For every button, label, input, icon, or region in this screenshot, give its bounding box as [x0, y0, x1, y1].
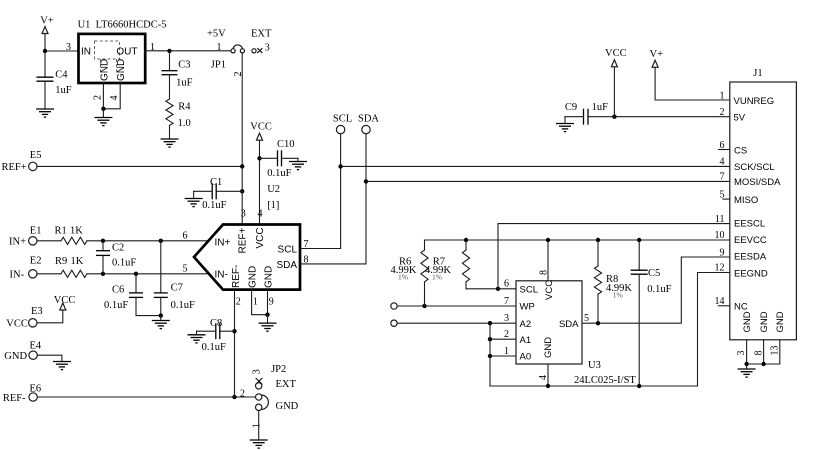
- svg-text:IN+: IN+: [215, 237, 231, 248]
- svg-text:6: 6: [183, 230, 188, 241]
- ground (C1): [185, 199, 203, 207]
- power symbol VCC (E3): [54, 295, 76, 310]
- wire WP net: [397, 305, 516, 307]
- wire U1 pin2: [102, 83, 104, 109]
- junction C5 bottom: [637, 384, 641, 388]
- wire R7 to U3 pin6: [466, 288, 516, 290]
- terminal E2 IN-: [10, 256, 42, 281]
- svg-text:EEGND: EEGND: [734, 268, 768, 279]
- svg-text:1: 1: [504, 346, 509, 357]
- wire U1 OUT to JP1: [145, 50, 231, 52]
- svg-text:1uF: 1uF: [55, 85, 72, 96]
- svg-text:0.1uF: 0.1uF: [202, 200, 226, 211]
- svg-text:2: 2: [240, 388, 245, 399]
- power symbol V+ (left): [40, 16, 54, 34]
- wire EEVCC bus: [425, 239, 730, 241]
- svg-text:J1: J1: [753, 68, 762, 79]
- wire NC stub pin14: [718, 305, 729, 307]
- wire U2 pin1 gnd: [252, 290, 268, 315]
- svg-text:0.1uF: 0.1uF: [112, 258, 136, 269]
- resistor R9 1K: [55, 256, 87, 277]
- capacitor C3: [162, 51, 193, 99]
- wire A0 stub: [490, 355, 516, 357]
- ground (J1 pins 3,8,13): [738, 369, 756, 377]
- svg-text:WP: WP: [520, 302, 535, 313]
- wire EEGND up to J1 pin12: [698, 273, 730, 387]
- power symbol VCC (U2 pin 4): [250, 121, 272, 140]
- wire EESCL to J1 pin11: [498, 224, 730, 289]
- wire EEGND bus: [490, 385, 698, 387]
- svg-text:E3: E3: [31, 306, 43, 317]
- wire SCL bus to J1 pin4: [341, 165, 730, 167]
- svg-text:C8: C8: [210, 318, 222, 329]
- wire 5V line to J1 pin2: [588, 116, 730, 118]
- svg-text:C2: C2: [112, 243, 124, 254]
- svg-text:4: 4: [258, 209, 263, 220]
- svg-text:IN-: IN-: [10, 270, 25, 281]
- svg-text:REF+: REF+: [2, 162, 27, 173]
- svg-text:REF-: REF-: [231, 265, 242, 288]
- svg-text:EEVCC: EEVCC: [734, 235, 767, 246]
- junction IN+/C2: [101, 239, 105, 243]
- resistor R7 4.99K: [425, 240, 470, 289]
- svg-text:SCL: SCL: [520, 285, 538, 296]
- svg-text:VCC: VCC: [544, 280, 555, 300]
- terminal E3 VCC: [6, 306, 42, 329]
- svg-text:VCC: VCC: [250, 121, 272, 132]
- wire REF+ net: [37, 165, 242, 167]
- svg-text:4: 4: [109, 96, 120, 101]
- svg-text:4: 4: [720, 157, 725, 168]
- svg-text:SDA: SDA: [358, 113, 379, 124]
- svg-text:1K: 1K: [71, 256, 84, 267]
- terminal E4 GND: [4, 340, 42, 361]
- svg-text:GND: GND: [247, 266, 258, 288]
- svg-text:GND: GND: [99, 59, 110, 81]
- svg-text:5V: 5V: [734, 113, 746, 124]
- svg-text:JP2: JP2: [271, 364, 286, 375]
- svg-text:C6: C6: [112, 284, 124, 295]
- svg-text:1%: 1%: [613, 290, 623, 299]
- wire REF+ node down to C1: [241, 166, 243, 191]
- junction IN+/C7: [159, 239, 163, 243]
- svg-text:V+: V+: [40, 16, 54, 27]
- svg-text:5: 5: [584, 313, 589, 324]
- junction U3 GND: [546, 384, 550, 388]
- svg-text:GND: GND: [759, 311, 770, 332]
- svg-text:E2: E2: [30, 256, 42, 267]
- terminal test point (A2): [391, 320, 397, 326]
- wire gnd stem: [160, 316, 162, 321]
- svg-text:IN: IN: [81, 47, 91, 58]
- svg-text:7: 7: [504, 296, 509, 307]
- svg-text:3: 3: [241, 209, 246, 220]
- svg-text:IN-: IN-: [215, 269, 228, 280]
- wire SDA bus to J1 pin7: [366, 180, 730, 182]
- wire A2 net: [397, 322, 516, 324]
- svg-text:1uF: 1uF: [176, 78, 193, 89]
- wire U2 pin7 SCL up: [300, 134, 341, 249]
- capacitor C8: [197, 318, 235, 353]
- ground (R4): [161, 139, 179, 147]
- jumper JP2: [240, 364, 299, 428]
- svg-text:C3: C3: [178, 60, 190, 71]
- junction SCL/EESCL: [496, 287, 500, 291]
- capacitor C5: [631, 240, 672, 386]
- svg-text:1uF: 1uF: [592, 102, 609, 113]
- svg-text:GND: GND: [276, 401, 299, 412]
- svg-text:1%: 1%: [398, 272, 408, 281]
- svg-text:REF+: REF+: [238, 227, 249, 253]
- svg-text:MISO: MISO: [734, 195, 758, 206]
- svg-text:9: 9: [720, 247, 725, 258]
- svg-text:VUNREG: VUNREG: [734, 96, 775, 107]
- svg-text:[1]: [1]: [267, 200, 279, 211]
- connector J1: [715, 68, 797, 356]
- svg-text:7: 7: [720, 172, 725, 183]
- svg-text:1K: 1K: [70, 225, 83, 236]
- wire JP1 pin2 down to REF+ node: [241, 53, 243, 166]
- resistor R1 1K: [55, 225, 88, 244]
- junction IN-/C2: [101, 272, 105, 276]
- svg-text:U1 LT6660HCDC-5: U1 LT6660HCDC-5: [78, 20, 167, 31]
- svg-text:0.1uF: 0.1uF: [104, 300, 128, 311]
- capacitor C2: [96, 241, 136, 274]
- svg-text:GND: GND: [543, 337, 554, 358]
- junction U3 VCC: [546, 238, 550, 242]
- svg-text:VCC: VCC: [255, 227, 266, 248]
- svg-text:2: 2: [92, 95, 103, 100]
- svg-text:R1: R1: [55, 225, 67, 236]
- wire V+ to U1 IN: [45, 50, 79, 52]
- svg-text:SDA: SDA: [276, 260, 297, 271]
- svg-text:V+: V+: [650, 49, 664, 60]
- wire gnd stem: [267, 315, 269, 323]
- ground (JP2): [250, 440, 268, 448]
- junction IN-/C6: [134, 272, 138, 276]
- junction OUT/C3: [167, 49, 171, 53]
- wire U3 pin5 SDA to J1 pin9: [582, 257, 730, 323]
- svg-text:0.1uF: 0.1uF: [267, 168, 291, 179]
- svg-text:VCC: VCC: [54, 295, 76, 306]
- junction REF-/U2 pin2: [232, 395, 236, 399]
- svg-text:1%: 1%: [432, 272, 442, 281]
- ground (C4): [36, 109, 54, 117]
- wire U3 pin4 GND: [547, 364, 549, 386]
- svg-text:SCL: SCL: [278, 245, 298, 256]
- jumper JP1: [207, 29, 272, 77]
- svg-text:E1: E1: [30, 226, 42, 237]
- ground (C9): [556, 124, 574, 132]
- junction SDA bus: [364, 179, 368, 183]
- junction J1 gnd pin3: [744, 362, 748, 366]
- svg-text:JP1: JP1: [211, 60, 226, 71]
- svg-text:C4: C4: [55, 70, 68, 81]
- junction R6/WP: [422, 304, 426, 308]
- terminal SCL test point: [333, 113, 352, 134]
- capacitor C10: [260, 139, 299, 179]
- wire J1 gnd pin8: [763, 340, 765, 364]
- terminal SDA test point: [358, 113, 379, 134]
- svg-text:5: 5: [183, 263, 188, 274]
- svg-text:C5: C5: [648, 268, 660, 279]
- svg-text:R9: R9: [55, 256, 67, 267]
- svg-text:GND: GND: [116, 59, 127, 81]
- svg-text:4: 4: [538, 375, 549, 380]
- svg-text:1: 1: [253, 297, 258, 308]
- resistor R8 4.99K: [594, 240, 632, 323]
- wire V+ stem: [44, 34, 46, 52]
- power symbol VCC (C9/5V): [605, 48, 627, 67]
- svg-text:24LC025-I/ST: 24LC025-I/ST: [574, 375, 636, 386]
- ground (C8): [188, 335, 206, 343]
- svg-text:E5: E5: [30, 150, 42, 161]
- wire E3 to VCC symbol: [37, 310, 63, 323]
- wire R1 to U2 pin6: [87, 240, 208, 242]
- wire U2 pin3 REF+: [241, 191, 243, 224]
- svg-text:C9: C9: [565, 102, 577, 113]
- svg-text:GND: GND: [4, 351, 27, 362]
- junction U2 gnd: [265, 313, 269, 317]
- svg-text:IN+: IN+: [9, 237, 26, 248]
- wire U2 pin8 SDA up: [300, 134, 366, 264]
- svg-text:EESDA: EESDA: [734, 251, 767, 262]
- svg-text:6: 6: [504, 279, 509, 290]
- terminal E6 REF-: [3, 383, 41, 404]
- svg-text:2: 2: [504, 329, 509, 340]
- svg-text:C10: C10: [277, 139, 295, 150]
- junction REF+: [240, 164, 244, 168]
- wire REF- net: [38, 396, 256, 398]
- svg-text:A1: A1: [520, 335, 532, 346]
- wire U2 pin2 REF- vertical: [234, 290, 236, 397]
- junction C8 tap: [232, 329, 236, 333]
- svg-text:MOSI/SDA: MOSI/SDA: [734, 177, 781, 188]
- svg-text:0.1uF: 0.1uF: [647, 284, 671, 295]
- resistor R4: [166, 99, 191, 139]
- svg-text:SCL: SCL: [333, 113, 352, 124]
- junction A1: [488, 337, 492, 341]
- capacitor C4: [37, 51, 72, 109]
- wire A2/A1/A0 tie vertical: [489, 323, 491, 386]
- junction VCC/5V: [612, 115, 616, 119]
- svg-text:+5V: +5V: [207, 29, 226, 40]
- capacitor C9: [565, 102, 608, 125]
- svg-text:GND: GND: [263, 266, 274, 288]
- wire E1 to R1: [37, 240, 61, 242]
- svg-text:SDA: SDA: [559, 319, 579, 330]
- svg-text:E4: E4: [30, 340, 42, 351]
- power symbol V+ (J1): [650, 49, 664, 67]
- svg-text:1: 1: [217, 42, 222, 53]
- terminal E5 REF+: [2, 150, 42, 173]
- svg-text:8: 8: [753, 351, 764, 356]
- svg-text:1.0: 1.0: [178, 118, 191, 129]
- svg-text:C7: C7: [171, 282, 183, 293]
- junction J1 gnd pin8: [761, 362, 765, 366]
- eeprom U3 24LC025-I/ST: [504, 270, 636, 386]
- svg-text:3: 3: [66, 42, 71, 53]
- ground (C10): [289, 162, 307, 170]
- svg-text:2: 2: [720, 107, 725, 118]
- svg-text:0.1uF: 0.1uF: [202, 342, 226, 353]
- capacitor C1: [194, 177, 243, 211]
- svg-text:VCC: VCC: [605, 48, 627, 59]
- wire U2 pin9 gnd: [267, 290, 269, 315]
- svg-text:13: 13: [769, 346, 780, 356]
- wire U3 pin8 VCC: [547, 240, 549, 281]
- ADC U2 pentagon body: [183, 209, 309, 308]
- svg-text:SCK/SCL: SCK/SCL: [734, 162, 775, 173]
- svg-text:REF-: REF-: [3, 393, 26, 404]
- wire CS stub pin6: [718, 149, 729, 151]
- svg-text:EXT: EXT: [251, 29, 272, 40]
- wire V+ to J1 pin1 VUNREG: [655, 67, 730, 100]
- svg-text:GND: GND: [742, 311, 753, 332]
- wire E2 to R9: [37, 273, 61, 275]
- svg-text:A0: A0: [520, 352, 532, 363]
- capacitor C6: [104, 274, 161, 316]
- junction R8/SDA: [596, 321, 600, 325]
- junction C5 top: [637, 238, 641, 242]
- junction A0: [488, 354, 492, 358]
- svg-text:EESCL: EESCL: [734, 218, 765, 229]
- svg-text:1: 1: [251, 423, 262, 428]
- wire E4 to ground: [38, 355, 62, 361]
- svg-text:10: 10: [715, 230, 725, 241]
- svg-text:GND: GND: [775, 311, 786, 332]
- svg-text:11: 11: [715, 214, 725, 225]
- wire A1 stub: [490, 338, 516, 340]
- wire U1 pin4: [103, 83, 120, 109]
- wire J1 gnd pin3: [746, 340, 748, 364]
- svg-text:C1: C1: [210, 177, 222, 188]
- svg-text:EXT: EXT: [276, 379, 297, 390]
- svg-text:NC: NC: [734, 302, 748, 313]
- junction A2 tap: [488, 321, 492, 325]
- svg-text:0.1uF: 0.1uF: [171, 300, 195, 311]
- junction C6/C7 gnd: [159, 313, 163, 317]
- svg-text:CS: CS: [734, 146, 747, 157]
- junction R7 top: [464, 238, 468, 242]
- wire MISO stub pin5: [723, 198, 730, 200]
- svg-text:3: 3: [265, 43, 270, 54]
- ground (E4): [53, 362, 71, 370]
- junction VCC/C10: [257, 156, 261, 160]
- svg-text:2: 2: [236, 297, 241, 308]
- wire JP2 pin1 to ground: [258, 411, 260, 441]
- terminal E1 IN+: [9, 226, 41, 248]
- ground (U2 pins 1,9): [259, 323, 277, 331]
- terminal test point (WP): [391, 303, 397, 309]
- junction SCL bus: [338, 164, 342, 168]
- svg-text:VCC: VCC: [6, 318, 28, 329]
- junction V+/C4: [43, 49, 47, 53]
- svg-text:1: 1: [720, 90, 725, 101]
- svg-text:R4: R4: [178, 102, 191, 113]
- wire J1 gnd pin13: [747, 340, 780, 364]
- junction C1 tap: [240, 189, 244, 193]
- svg-text:3: 3: [736, 351, 747, 356]
- wire VCC stem to 5V line: [613, 67, 615, 117]
- svg-text:9: 9: [269, 297, 274, 308]
- regulator U1 LT6660HCDC-5: [66, 20, 166, 101]
- junction U1 gnd pins: [101, 107, 105, 111]
- svg-text:12: 12: [715, 263, 725, 274]
- wire R9 to U2 pin5: [87, 273, 209, 275]
- svg-text:A2: A2: [520, 319, 532, 330]
- wire gnd stem: [102, 109, 104, 118]
- ground (U1 pins 2,4): [94, 118, 112, 126]
- junction R8 top: [596, 238, 600, 242]
- svg-text:U2: U2: [267, 184, 280, 195]
- capacitor C7: [154, 241, 195, 316]
- svg-text:3: 3: [251, 369, 262, 374]
- svg-text:U3: U3: [588, 360, 601, 371]
- ground (C6,C7): [152, 321, 170, 329]
- wire VCC to U2 pin4: [259, 140, 261, 224]
- wire gnd stem: [746, 364, 748, 369]
- svg-text:OUT: OUT: [116, 47, 137, 58]
- svg-text:3: 3: [504, 313, 509, 324]
- resistor R6 4.99K: [391, 240, 429, 306]
